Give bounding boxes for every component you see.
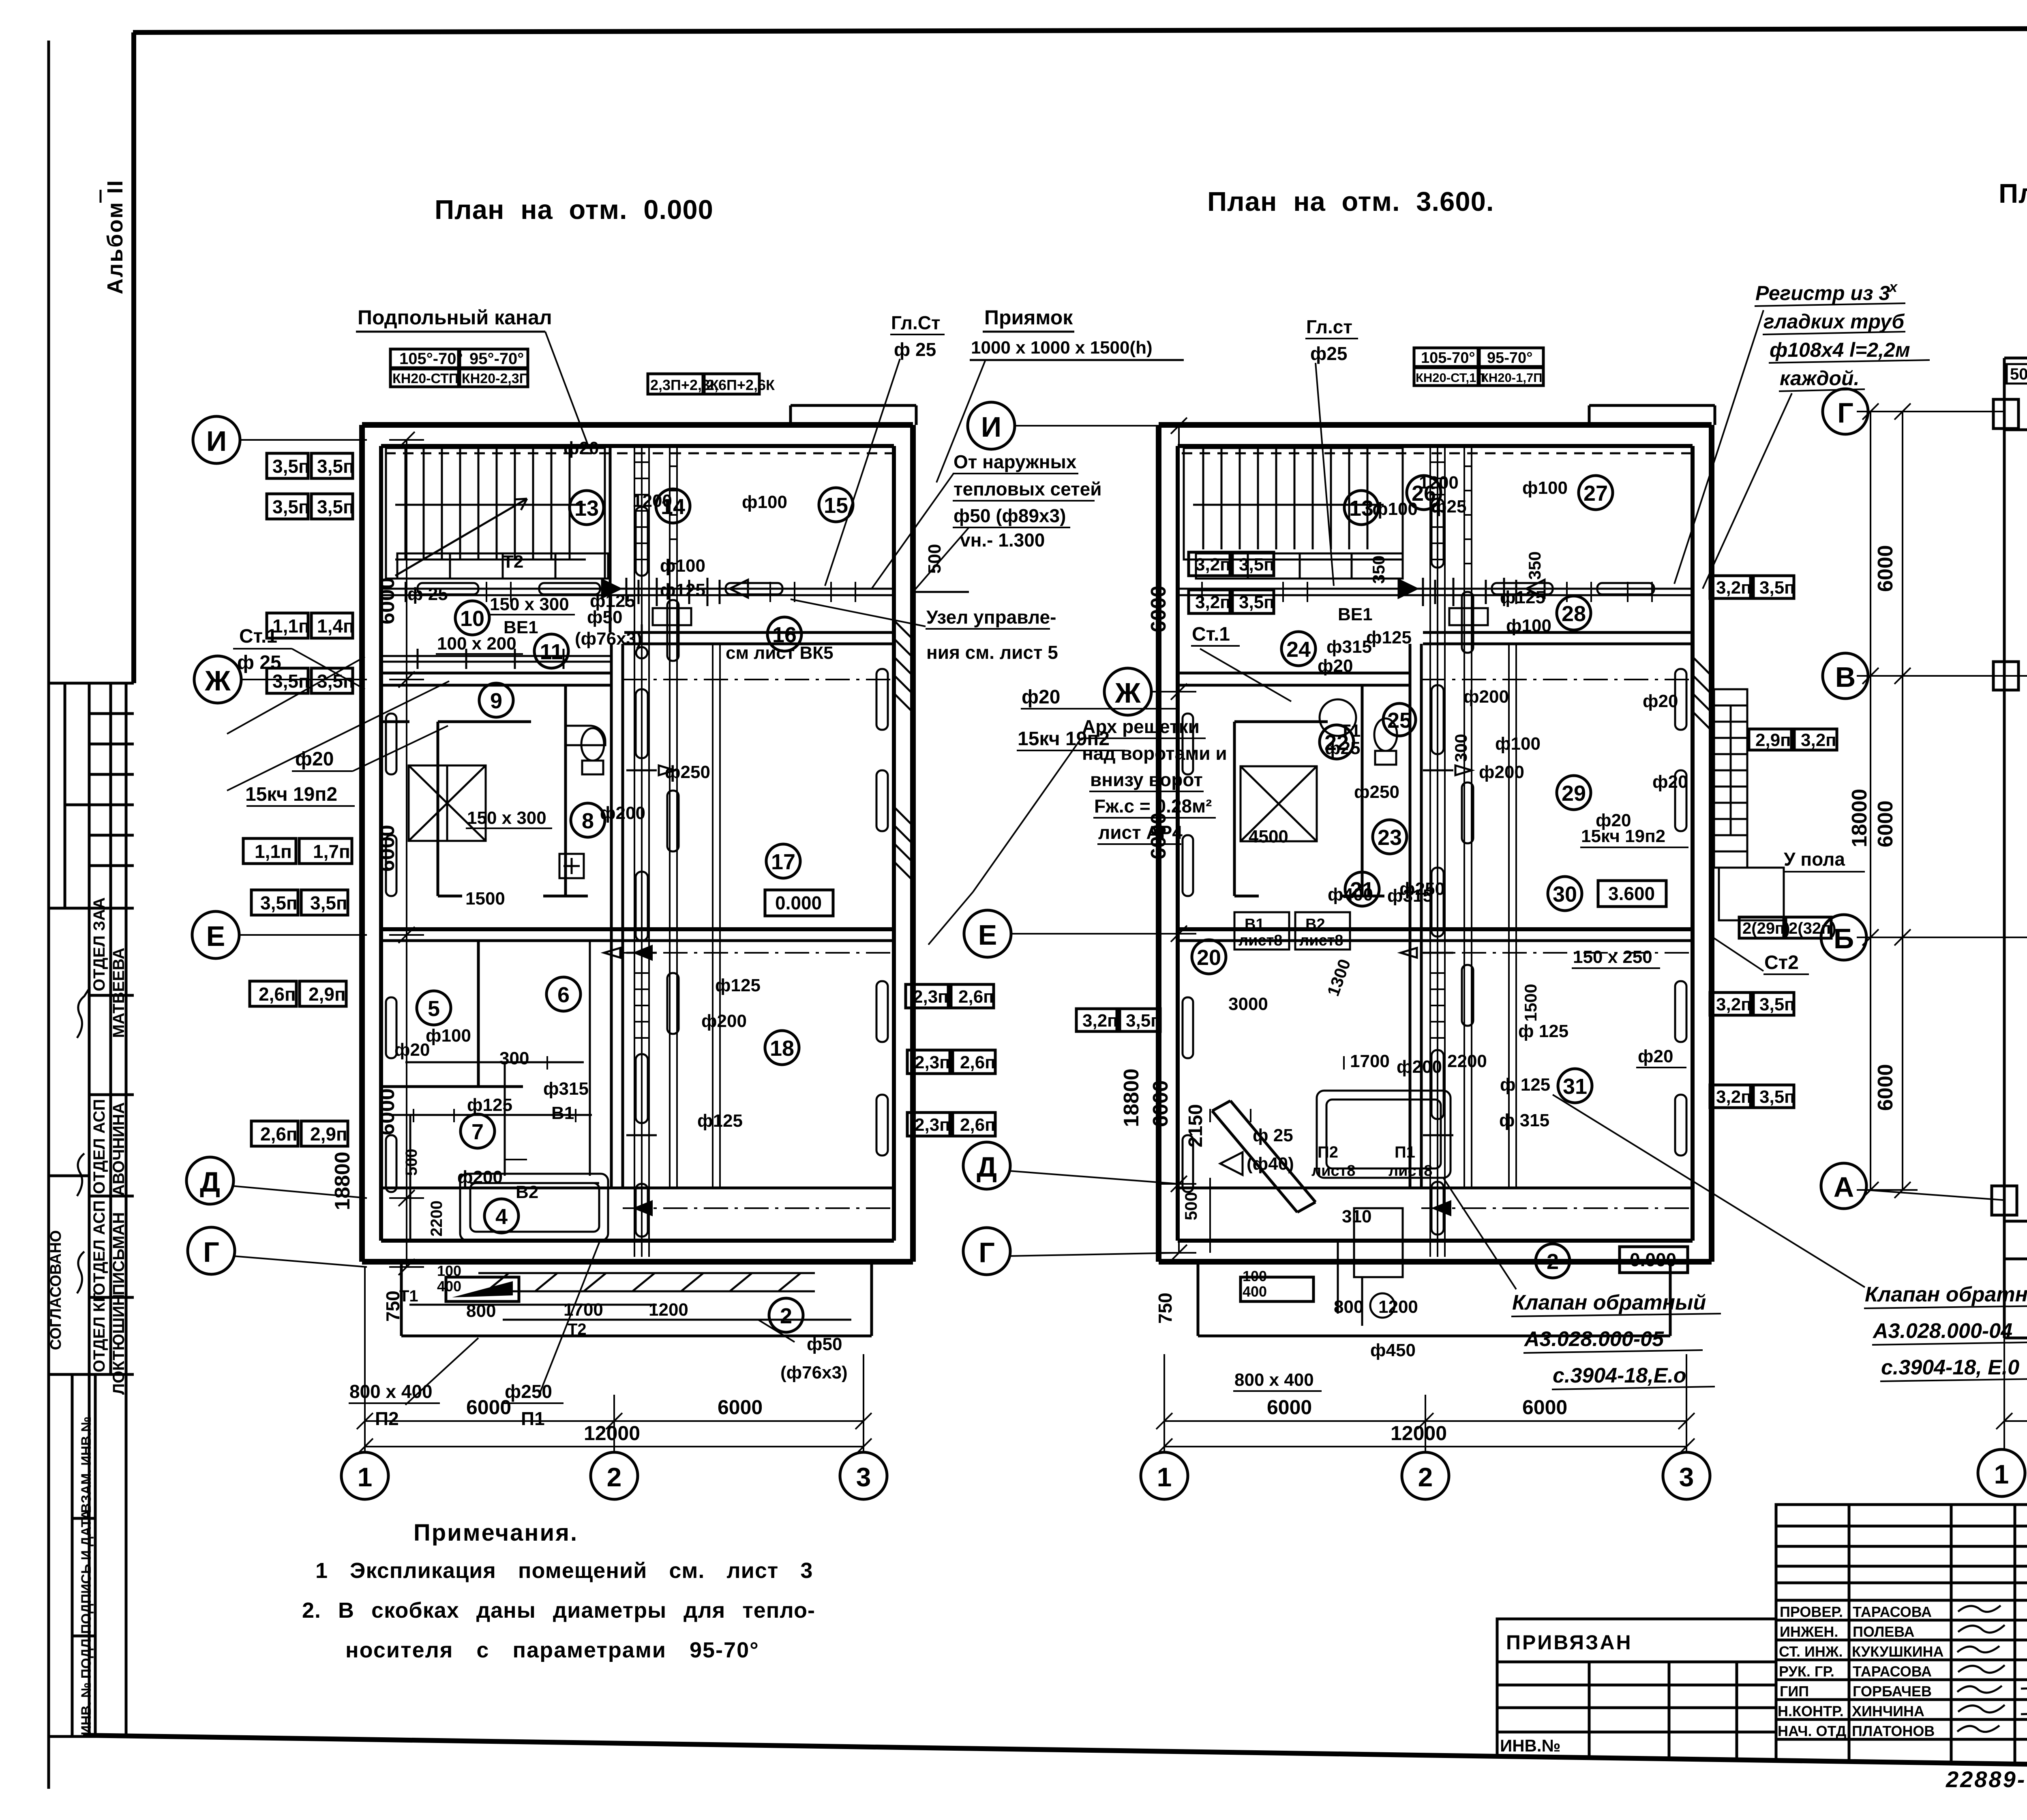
svg-text:2(29п): 2(29п): [1742, 920, 1790, 937]
svg-text:1: 1: [1994, 1459, 2009, 1489]
svg-text:105-70°: 105-70°: [1421, 349, 1475, 367]
svg-text:1,4п: 1,4п: [317, 615, 354, 637]
svg-text:6: 6: [557, 983, 570, 1007]
right inner radiators plan2: [1675, 669, 1686, 1155]
pipe capsules B: [667, 600, 679, 1034]
room circle 21: [1345, 872, 1379, 906]
axis circle Ж plan1: [194, 656, 367, 703]
room circle 2 + 0.000 box plan2: [1536, 1244, 1688, 1278]
svg-text:ф50 (ф89x3): ф50 (ф89x3): [954, 505, 1066, 526]
svg-text:150 x 300: 150 x 300: [490, 594, 569, 614]
svg-text:КН20-СТ,1П: КН20-СТ,1П: [1416, 371, 1485, 385]
temp boxes plan2: [1414, 348, 1543, 367]
svg-text:Г: Г: [203, 1236, 219, 1268]
svg-text:3,5п: 3,5п: [310, 892, 347, 913]
wall Ж interior: [381, 672, 610, 675]
axis circle Е plan2: [964, 910, 1179, 957]
svg-text:2: 2: [780, 1304, 792, 1328]
svg-text:(ф76x3): (ф76x3): [575, 629, 642, 649]
svg-text:300: 300: [1451, 734, 1470, 762]
svg-text:ф 125: ф 125: [1518, 1021, 1568, 1041]
MIDCOL23: [1511, 279, 2027, 1389]
partitions rooms 22-25: [1234, 685, 1384, 896]
svg-text:3: 3: [856, 1462, 871, 1492]
svg-text:Г: Г: [979, 1237, 995, 1268]
svg-text:9: 9: [490, 689, 502, 713]
PLAN2: [1159, 405, 1865, 1391]
svg-text:1200: 1200: [649, 1300, 688, 1320]
svg-text:План на отм. 0.000: План на отм. 0.000: [435, 195, 714, 225]
svg-text:ф125: ф125: [467, 1095, 512, 1115]
svg-text:25: 25: [1387, 708, 1412, 733]
svg-text:В2: В2: [1305, 916, 1325, 933]
svg-text:ф108x4 l=2,2м: ф108x4 l=2,2м: [1770, 339, 1910, 361]
svg-text:30: 30: [1553, 882, 1577, 907]
svg-text:ф400: ф400: [1328, 885, 1373, 905]
label box row 2,6п 2,9п second: [251, 1121, 348, 1146]
svg-text:15кч 19п2: 15кч 19п2: [1581, 826, 1665, 846]
svg-text:ф 25: ф 25: [237, 652, 281, 673]
box pair 3,2п 3,5п upper: [1710, 576, 1795, 598]
svg-text:А3.028.000-04: А3.028.000-04: [1872, 1319, 2012, 1343]
svg-text:ф20: ф20: [394, 1040, 430, 1060]
underfloor channel dashed plan2: [1182, 452, 1691, 454]
svg-text:3,2п: 3,2п: [1195, 555, 1231, 575]
room circle 24: [1281, 632, 1316, 666]
svg-text:ПРОВЕР.: ПРОВЕР.: [1780, 1603, 1843, 1620]
svg-text:3,2п: 3,2п: [1801, 730, 1836, 750]
pipe capsules B plan2: [1462, 592, 1473, 1026]
svg-text:ф50: ф50: [587, 607, 622, 627]
svg-text:18800: 18800: [1120, 1068, 1143, 1127]
svg-text:ТАРАСОВА: ТАРАСОВА: [1853, 1663, 1932, 1680]
machinery bottom plan2: [1338, 1208, 1403, 1326]
left inner radiators plan1: [386, 714, 396, 1192]
svg-text:КУКУШКИНА: КУКУШКИНА: [1852, 1643, 1944, 1660]
room circle 4: [484, 1199, 519, 1233]
annex vent rect plan2: [1241, 1277, 1313, 1301]
svg-text:КН20-1,7П: КН20-1,7П: [1481, 371, 1543, 385]
svg-text:ф 25: ф 25: [407, 584, 448, 604]
wall Д interior: [381, 1187, 894, 1190]
room circle 15: [819, 488, 853, 522]
axis circle 3 plan1: [840, 1447, 887, 1499]
main border top: [133, 28, 2027, 32]
dash-dot line plan2 room29: [1421, 952, 1693, 954]
svg-text:800: 800: [466, 1301, 496, 1321]
box 3,2п 3,5п mid: [1076, 1009, 1161, 1031]
svg-text:АВОЧНИНА: АВОЧНИНА: [110, 1102, 128, 1196]
svg-text:3,5п: 3,5п: [317, 496, 354, 517]
svg-text:95-70°: 95-70°: [1487, 349, 1532, 367]
room circle 20: [1192, 940, 1226, 974]
svg-text:500: 500: [925, 544, 945, 574]
svg-text:Ж: Ж: [1114, 677, 1141, 709]
outer wall right: [1709, 425, 1714, 1262]
svg-text:300: 300: [499, 1048, 529, 1068]
boxes 2,3п 2,6п triple: [906, 984, 994, 1008]
svg-text:310: 310: [1342, 1207, 1371, 1226]
svg-text:ф250: ф250: [505, 1381, 552, 1402]
svg-text:2: 2: [1547, 1250, 1559, 1274]
room circle 6: [546, 977, 581, 1011]
svg-text:ОТДЕЛ КГ: ОТДЕЛ КГ: [90, 1293, 108, 1372]
main block outer: [1776, 1505, 2027, 1768]
svg-text:В1: В1: [551, 1103, 574, 1123]
right wall hatch band: [1693, 657, 1712, 731]
wc fixtures: [566, 726, 605, 774]
svg-text:Т2: Т2: [503, 552, 523, 572]
svg-text:Клапан обратный: Клапан обратный: [1512, 1291, 1706, 1314]
row lines dept cells: [89, 712, 134, 715]
TITLES: [435, 178, 2027, 225]
wall Ж interior plan2: [1178, 672, 1409, 675]
dash-dot line room17: [623, 952, 894, 954]
svg-text:ния см. лист 5: ния см. лист 5: [926, 642, 1058, 663]
svg-text:10: 10: [460, 607, 484, 631]
axis circle 1 plan2: [1141, 1452, 1188, 1499]
svg-text:с.3904-18, Е.0: с.3904-18, Е.0: [1881, 1356, 2019, 1379]
right wall hatch band 1: [894, 620, 913, 712]
svg-text:План на отм. 3.600.: План на отм. 3.600.: [1207, 187, 1494, 217]
room circle 14: [656, 489, 690, 523]
svg-text:КН20-2,3П: КН20-2,3П: [462, 371, 529, 386]
svg-text:Ст2: Ст2: [1764, 952, 1799, 973]
room circle 30 + 3.600 box: [1548, 877, 1666, 911]
plus box: [559, 854, 584, 878]
svg-text:3000: 3000: [1228, 994, 1268, 1014]
svg-text:см лист ВК5: см лист ВК5: [726, 643, 834, 663]
bottom Г wall plan2: [1159, 1259, 1712, 1265]
svg-text:Т1: Т1: [399, 1287, 418, 1305]
svg-text:ПИСЬМАН: ПИСЬМАН: [110, 1212, 128, 1295]
svg-text:А: А: [1834, 1171, 1854, 1203]
axis circle 2 plan2: [1402, 1452, 1449, 1499]
main ticks plan1: [405, 582, 855, 1172]
label box row 1,1п 1,7п: [243, 838, 352, 864]
svg-text:ПОЛЕВА: ПОЛЕВА: [1853, 1623, 1914, 1640]
personnel titles: [1778, 1603, 1944, 1739]
B1 B2 list8 boxes: [1234, 912, 1289, 950]
axis circle 2 plan1: [591, 1447, 638, 1499]
axis circle 3 plan2: [1663, 1452, 1710, 1499]
svg-text:18800: 18800: [331, 1151, 354, 1210]
svg-text:П1: П1: [521, 1408, 545, 1429]
svg-text:11: 11: [540, 640, 563, 664]
svg-text:7: 7: [471, 1120, 484, 1144]
svg-text:4500: 4500: [1249, 827, 1288, 847]
svg-text:ф20: ф20: [1652, 772, 1688, 792]
svg-text:2,6п: 2,6п: [259, 984, 296, 1005]
partition room 9/10/11: [381, 685, 588, 896]
dash-dot line room18: [623, 1207, 894, 1209]
svg-text:ХИНЧИНА: ХИНЧИНА: [1852, 1703, 1924, 1719]
pipe bundle B: [670, 446, 677, 1188]
svg-text:Клапан обратный: Клапан обратный: [1865, 1283, 2027, 1306]
chute diagonal: [1212, 1101, 1316, 1212]
pipe pair plan2: [1509, 644, 1516, 1188]
axis circle Г plan1: [188, 1227, 367, 1274]
label boxes 3,2п 3,5п top: [1189, 552, 1275, 576]
signatures: [1957, 1606, 2027, 1732]
leaders from naruzhnye: [872, 474, 954, 589]
svg-text:ф100: ф100: [426, 1026, 471, 1046]
svg-text:х: х: [1888, 279, 1898, 295]
pipe capsules A plan2: [1431, 499, 1444, 1235]
svg-text:Е: Е: [978, 919, 997, 951]
svg-text:6000: 6000: [375, 825, 399, 872]
plan2 bottom dims: [1156, 1354, 1695, 1455]
svg-text:А3.028.000-05: А3.028.000-05: [1523, 1327, 1664, 1351]
axis circle 1 plan1: [341, 1447, 388, 1499]
outer wall left: [1156, 425, 1161, 1262]
registr text block cursive: [1755, 279, 1930, 391]
outer wall top: [1159, 422, 1712, 428]
valve ticks on vertical mains: [604, 765, 675, 1135]
svg-text:150 x 250: 150 x 250: [1573, 947, 1652, 967]
svg-text:400: 400: [1243, 1283, 1267, 1300]
axis circle Д plan2: [963, 1142, 1179, 1189]
svg-text:500: 500: [403, 1149, 420, 1176]
svg-text:ф25: ф25: [1325, 738, 1360, 758]
fitting cluster plan2: [1399, 578, 1545, 625]
svg-text:6000: 6000: [375, 577, 399, 624]
leader kl obratny 04 from f315: [1553, 1095, 1865, 1287]
svg-text:Д: Д: [200, 1166, 220, 1198]
svg-text:лист8: лист8: [1311, 1162, 1355, 1179]
svg-text:с.3904-18,Е.о: с.3904-18,Е.о: [1553, 1364, 1686, 1387]
svg-text:ф100: ф100: [1522, 478, 1568, 498]
axis circle Г plan2: [963, 1228, 1179, 1275]
svg-text:1: 1: [358, 1462, 373, 1492]
heating main T1 row: [383, 583, 892, 595]
svg-text:ф450: ф450: [1370, 1340, 1416, 1360]
svg-text:И: И: [206, 425, 227, 457]
svg-text:Приямок: Приямок: [984, 306, 1073, 329]
svg-text:План на отм. - 3.000: План на отм. - 3.000: [1999, 178, 2027, 209]
dash-dot line plan2 room31: [1421, 1207, 1693, 1209]
svg-text:ф20: ф20: [1318, 656, 1353, 676]
svg-text:6000: 6000: [375, 1088, 399, 1135]
svg-text:8: 8: [582, 809, 594, 833]
svg-text:Подпольный канал: Подпольный канал: [358, 306, 552, 329]
interior vertical wall axis2: [610, 644, 613, 1188]
PLAN1: [362, 405, 916, 1383]
svg-text:1700: 1700: [1350, 1051, 1390, 1071]
svg-text:12000: 12000: [1391, 1422, 1447, 1445]
svg-text:2. В скобках даны диаметры: 2. В скобках даны диаметры для тепло-: [302, 1598, 815, 1623]
svg-text:НАЧ. ОТД: НАЧ. ОТД: [1778, 1723, 1846, 1739]
interior vertical wall axis2 plan2: [1409, 644, 1412, 1188]
svg-text:СОГЛАСОВАНО: СОГЛАСОВАНО: [47, 1230, 64, 1350]
label box row 3,5п 3,5п third: [267, 668, 354, 693]
svg-text:17: 17: [771, 850, 795, 874]
DIMCOL1: [186, 416, 449, 1322]
svg-text:29: 29: [1562, 781, 1586, 806]
svg-text:2,9п: 2,9п: [1755, 730, 1791, 750]
svg-text:ф20: ф20: [295, 748, 334, 770]
svg-text:2,6п: 2,6п: [958, 987, 994, 1007]
column square mid-left: [1993, 662, 2018, 690]
TOPLABELS: [356, 306, 1543, 586]
pit room4 double rect: [460, 1174, 608, 1241]
svg-text:ф200: ф200: [701, 1011, 747, 1031]
svg-text:Г: Г: [1837, 397, 1853, 429]
svg-text:1,7п: 1,7п: [313, 841, 350, 862]
svg-text:ф100: ф100: [1495, 734, 1541, 754]
svg-text:ИНВ. № ПОДЛ: ИНВ. № ПОДЛ: [79, 1639, 94, 1735]
svg-text:100: 100: [1243, 1268, 1267, 1284]
room circle 27: [1579, 476, 1613, 510]
svg-text:150 x 300: 150 x 300: [467, 808, 546, 828]
TITLEBLOCK: [1497, 1505, 2027, 1768]
svg-text:лист8: лист8: [1388, 1162, 1432, 1179]
wall Д interior plan2: [1178, 1187, 1693, 1190]
svg-text:ф 315: ф 315: [1499, 1110, 1549, 1130]
room circle 16: [726, 617, 834, 663]
room circle 25: [1383, 703, 1416, 736]
room circle 5: [417, 991, 451, 1025]
svg-text:ф315: ф315: [1326, 637, 1372, 657]
plan3 bottom dims: [1996, 1338, 2027, 1449]
svg-text:носителя с параметрами 95-7: носителя с параметрами 95-70°: [345, 1638, 759, 1662]
svg-text:20: 20: [1197, 945, 1221, 970]
svg-text:ф315: ф315: [1387, 886, 1433, 906]
svg-text:800: 800: [1334, 1297, 1363, 1317]
svg-text:ф200: ф200: [1463, 687, 1509, 707]
outer wall left: [359, 425, 365, 1262]
dash-dot axis Ж plan2: [1421, 679, 1693, 680]
label box row 2,6п 2,9п: [250, 981, 346, 1006]
exterior stair right of plan2: [1714, 689, 1784, 920]
svg-text:2,6п: 2,6п: [260, 1123, 298, 1145]
svg-text:500: 500: [2010, 365, 2027, 383]
room circle 11: [534, 634, 568, 668]
column square bottom-left: [1992, 1186, 2017, 1215]
svg-text:ф100: ф100: [1506, 616, 1551, 636]
lower three boxes: [72, 1517, 95, 1520]
svg-text:3.600: 3.600: [1608, 883, 1655, 904]
svg-text:тепловых сетей: тепловых сетей: [954, 478, 1101, 499]
svg-text:ф315: ф315: [543, 1079, 589, 1099]
svg-text:3,2п: 3,2п: [1082, 1011, 1118, 1031]
svg-text:В2: В2: [516, 1182, 538, 1202]
svg-text:2,6п: 2,6п: [960, 1115, 996, 1135]
svg-text:2,3п: 2,3п: [913, 987, 949, 1007]
svg-text:3,5п: 3,5п: [1759, 1087, 1795, 1107]
svg-text:(ф76x3): (ф76x3): [780, 1363, 848, 1383]
svg-text:ф100: ф100: [742, 492, 787, 512]
room circle 9: [479, 683, 513, 717]
svg-text:П2: П2: [375, 1408, 399, 1429]
svg-text:3,5п: 3,5п: [272, 496, 310, 517]
svg-text:2,9п: 2,9п: [309, 984, 346, 1005]
svg-text:Fж.с = 0.28м²: Fж.с = 0.28м²: [1094, 795, 1212, 817]
svg-text:ИНВ.№: ИНВ.№: [1500, 1736, 1560, 1755]
bottom annex outline: [401, 1262, 872, 1336]
svg-text:3,5п: 3,5п: [272, 671, 310, 692]
svg-text:13: 13: [1349, 496, 1373, 521]
room circle 7: [461, 1114, 495, 1148]
PLAN3: [1992, 353, 2027, 1338]
bottom Г wall: [362, 1259, 913, 1265]
svg-text:500: 500: [1181, 1192, 1200, 1220]
dim chain plan3: [1857, 403, 1918, 1198]
svg-text:Гл.ст: Гл.ст: [1306, 316, 1352, 337]
svg-text:2,9п: 2,9п: [310, 1123, 347, 1145]
svg-text:Альбом II: Альбом II: [103, 179, 127, 294]
svg-text:1200: 1200: [1419, 473, 1459, 493]
axis circle Е plan1: [192, 911, 367, 958]
svg-text:Гл.Ст: Гл.Ст: [891, 312, 941, 333]
top channel outer: [2004, 358, 2027, 430]
svg-text:3,2п: 3,2п: [1716, 1087, 1752, 1107]
svg-text:каждой.: каждой.: [1780, 367, 1859, 390]
segmented radiator strip T2: [397, 553, 608, 579]
outer wall top: [362, 422, 913, 428]
svg-text:Б: Б: [1834, 923, 1854, 954]
annex pipe lines: [409, 1305, 851, 1320]
svg-text:Е: Е: [206, 920, 225, 952]
svg-text:ф125: ф125: [1500, 587, 1545, 607]
svg-text:2150: 2150: [1185, 1104, 1206, 1147]
parapet top right plan1: [791, 405, 916, 425]
svg-text:5: 5: [428, 997, 440, 1021]
svg-text:В1: В1: [1245, 916, 1264, 933]
svg-text:(ф40): (ф40): [1247, 1154, 1294, 1174]
duct shaft rungs plan1: [634, 462, 677, 1038]
svg-text:КН20-СТП: КН20-СТП: [392, 371, 459, 386]
wall И-Ж interior: [609, 446, 612, 632]
room circle 18: [765, 1031, 799, 1065]
svg-text:От наружных: От наружных: [954, 451, 1077, 472]
svg-text:3,2п: 3,2п: [1716, 578, 1752, 598]
vertical dim chain plan1: [389, 432, 424, 1275]
x-box storage plan2: [1241, 766, 1317, 841]
svg-text:31: 31: [1563, 1074, 1587, 1099]
pipe bundle A plan2: [1430, 446, 1445, 1257]
signatures squiggles: [77, 987, 90, 1038]
svg-text:ГОРБАЧЕВ: ГОРБАЧЕВ: [1853, 1683, 1932, 1700]
svg-text:ф20: ф20: [564, 438, 599, 458]
svg-text:3,5п: 3,5п: [260, 892, 298, 913]
svg-text:95°-70°: 95°-70°: [469, 350, 524, 368]
axis circle 1 plan3: [1978, 1449, 2025, 1496]
svg-text:лист8: лист8: [1299, 932, 1343, 949]
BOTTOM: [302, 1241, 2027, 1798]
box pair 2(29п) 2(32п): [1739, 917, 1836, 938]
stair block plan2: [1184, 448, 1403, 560]
wall between 27/28: [1423, 631, 1693, 634]
dash-dot axis Ж through rooms: [623, 679, 894, 680]
svg-text:ТАРАСОВА: ТАРАСОВА: [1853, 1603, 1932, 1620]
svg-text:ф125: ф125: [715, 975, 761, 995]
pipe bundle B plan2: [1464, 446, 1472, 1188]
svg-text:2200: 2200: [428, 1200, 446, 1237]
svg-text:МАТВЕЕВА: МАТВЕЕВА: [110, 948, 128, 1038]
svg-text:vн.- 1.300: vн.- 1.300: [960, 529, 1045, 551]
room circle 28: [1557, 596, 1591, 630]
svg-text:1500: 1500: [1521, 984, 1540, 1022]
svg-text:2: 2: [607, 1462, 622, 1492]
room circle 17: [766, 844, 800, 878]
svg-text:ПРИВЯЗАН: ПРИВЯЗАН: [1506, 1631, 1633, 1654]
axis circle Д plan1: [186, 1157, 367, 1204]
SIDEBAR: [47, 179, 134, 1736]
svg-text:0.000: 0.000: [1630, 1249, 1676, 1270]
svg-text:ОТДЕЛ ЗАА: ОТДЕЛ ЗАА: [90, 897, 108, 991]
svg-text:ф125: ф125: [660, 580, 705, 600]
